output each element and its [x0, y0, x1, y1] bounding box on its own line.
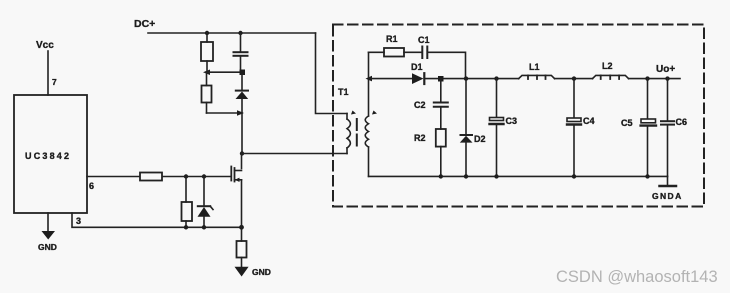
- svg-text:GND: GND: [252, 267, 271, 277]
- svg-text:3: 3: [76, 216, 81, 226]
- capacitor C2: [414, 79, 448, 110]
- svg-text:C3: C3: [506, 116, 518, 126]
- dashed box output section: [333, 25, 704, 207]
- ground under U1: [38, 213, 57, 252]
- svg-text:DC+: DC+: [134, 18, 155, 30]
- capacitor C5 column: [621, 79, 656, 177]
- svg-text:C4: C4: [583, 116, 595, 126]
- zener diode ZD1 (clamp): [236, 75, 249, 153]
- node main C6: [665, 76, 669, 80]
- node main C2 square: [438, 76, 444, 82]
- main line to output: [629, 78, 680, 80]
- svg-text:T1: T1: [338, 87, 349, 97]
- svg-text:C5: C5: [621, 118, 633, 128]
- wire snubber left vertical: [368, 52, 370, 78]
- main line between L1 and L2: [555, 78, 593, 80]
- snubber wire mid: [404, 51, 422, 53]
- node rail D2: [464, 174, 468, 178]
- node A arrow: [203, 70, 210, 76]
- svg-text:C1: C1: [418, 35, 430, 45]
- node rail-C7 junction: [238, 31, 242, 35]
- op-amp U1 UC3842: [14, 95, 87, 213]
- resistor R7 (current sense): [237, 227, 247, 267]
- node rail C5: [645, 174, 649, 178]
- node rail C3: [494, 174, 498, 178]
- capacitor C6 column: [661, 79, 687, 177]
- node lower rail R6: [184, 225, 188, 229]
- resistor R2: [414, 108, 446, 177]
- wire pin6 to gate: [87, 176, 231, 178]
- node gate-R6 junction: [184, 174, 188, 178]
- svg-text:D2: D2: [474, 134, 486, 144]
- zener diode D2 column: [460, 79, 486, 177]
- ground at source: [235, 267, 271, 277]
- node main line left arrow: [366, 76, 373, 82]
- main line after D1: [425, 78, 519, 80]
- wire secondary top column: [368, 79, 370, 116]
- capacitor C4 column: [567, 79, 595, 177]
- node main C5: [645, 76, 649, 80]
- resistor R4 (startup lower): [202, 72, 212, 113]
- transistor Q1 MOSFET: [231, 154, 241, 228]
- svg-text:GND: GND: [38, 242, 57, 252]
- capacitor C7 (input): [234, 33, 248, 70]
- svg-text:UC3842: UC3842: [25, 151, 71, 161]
- svg-text:Uo+: Uo+: [656, 64, 675, 75]
- capacitor C1: [418, 35, 430, 58]
- snubber wire right: [428, 52, 466, 78]
- wire DC+ rail down to primary: [316, 33, 348, 114]
- node rail-R3 junction: [205, 31, 209, 35]
- wire node B horizontal with arrow: [207, 110, 245, 116]
- node rail C2: [439, 174, 443, 178]
- svg-text:7: 7: [52, 77, 57, 87]
- svg-text:CSDN @whaosoft143: CSDN @whaosoft143: [556, 268, 718, 286]
- inductor L2: [593, 61, 629, 79]
- wire Vcc to pin 7: [47, 51, 49, 95]
- transformer T1: [338, 87, 377, 154]
- resistor R1: [384, 34, 404, 57]
- zener diode ZD2 (gate protect): [198, 177, 214, 228]
- node gate-ZD2 junction: [202, 174, 206, 178]
- wire secondary bottom column: [368, 147, 370, 176]
- svg-text:R2: R2: [414, 133, 426, 143]
- bottom rail of output section: [369, 175, 668, 177]
- svg-text:R1: R1: [386, 34, 398, 44]
- svg-text:C6: C6: [676, 117, 688, 127]
- resistor R6 (gate pulldown): [182, 177, 193, 228]
- main line left segment: [369, 78, 413, 80]
- svg-text:Vcc: Vcc: [36, 40, 54, 51]
- node A square junction: [240, 70, 246, 76]
- svg-text:L2: L2: [602, 61, 613, 71]
- resistor R3 (startup upper): [201, 33, 213, 72]
- node main D2: [464, 76, 468, 80]
- wire pin3 stub: [72, 213, 242, 227]
- ground GNDA output: [652, 176, 683, 201]
- node lower rail source: [239, 225, 244, 230]
- svg-text:L1: L1: [529, 62, 540, 72]
- svg-text:6: 6: [89, 181, 94, 191]
- inductor L1: [519, 62, 555, 79]
- wire node A horizontal: [206, 71, 242, 73]
- svg-text:D1: D1: [411, 62, 423, 72]
- capacitor C3 column: [490, 79, 518, 177]
- node main C3: [494, 76, 498, 80]
- node lower rail ZD2: [202, 225, 206, 229]
- node main C4: [572, 76, 576, 80]
- svg-text:C2: C2: [414, 100, 426, 110]
- snubber top wire left: [369, 51, 385, 53]
- resistor R5 (gate series): [140, 173, 162, 181]
- node drain junction: [240, 151, 244, 155]
- diode D1: [411, 62, 424, 84]
- svg-text:GNDA: GNDA: [652, 191, 683, 201]
- node rail C4: [572, 174, 576, 178]
- wire drain to transformer primary bottom: [242, 153, 347, 155]
- wire DC+ top rail: [148, 32, 316, 34]
